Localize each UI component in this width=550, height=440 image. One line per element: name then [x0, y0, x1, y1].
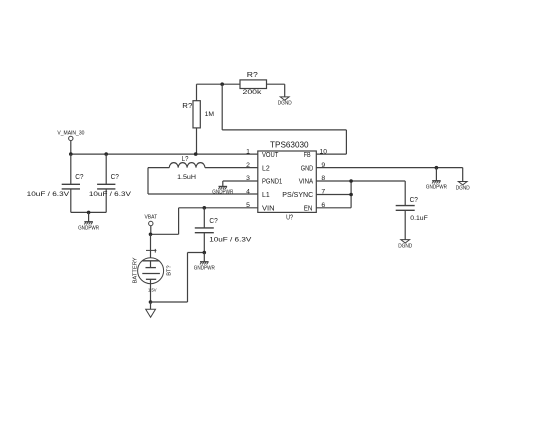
svg-text:C?: C?	[410, 195, 418, 204]
svg-text:GNDPWR: GNDPWR	[212, 190, 233, 196]
svg-text:VOUT: VOUT	[262, 150, 279, 159]
svg-text:0.1uF: 0.1uF	[410, 215, 428, 222]
svg-text:10: 10	[320, 148, 328, 155]
svg-text:VINA: VINA	[299, 177, 314, 186]
svg-text:1M: 1M	[205, 111, 215, 118]
svg-text:GNDPWR: GNDPWR	[78, 226, 99, 232]
svg-text:DGND: DGND	[456, 185, 470, 191]
svg-text:C?: C?	[75, 172, 83, 181]
svg-text:GND: GND	[301, 163, 314, 172]
svg-text:GNDPWR: GNDPWR	[426, 185, 447, 191]
svg-text:R?: R?	[182, 101, 192, 110]
svg-text:PGND1: PGND1	[262, 177, 282, 186]
svg-text:DGND: DGND	[398, 243, 412, 249]
svg-text:L?: L?	[182, 156, 189, 163]
svg-text:V_MAIN_30: V_MAIN_30	[57, 130, 84, 136]
svg-text:L1: L1	[262, 190, 270, 199]
svg-text:1.5uH: 1.5uH	[177, 174, 196, 181]
svg-text:L2: L2	[262, 163, 270, 172]
svg-text:TPS63030: TPS63030	[270, 141, 309, 150]
svg-text:FB: FB	[304, 150, 311, 159]
svg-text:10uF / 6.3V: 10uF / 6.3V	[89, 191, 132, 198]
svg-text:C?: C?	[111, 172, 119, 181]
svg-text:PS/SYNC: PS/SYNC	[282, 190, 313, 199]
svg-text:EN: EN	[304, 204, 313, 213]
svg-text:BT?: BT?	[166, 265, 172, 276]
svg-text:200k: 200k	[243, 89, 263, 96]
svg-text:DGND: DGND	[278, 101, 292, 107]
svg-text:10uF / 6.3V: 10uF / 6.3V	[209, 236, 252, 243]
svg-text:GNDPWR: GNDPWR	[194, 266, 215, 272]
svg-text:10uF / 6.3V: 10uF / 6.3V	[27, 191, 70, 198]
svg-text:R?: R?	[247, 70, 258, 79]
svg-text:U?: U?	[286, 212, 293, 221]
svg-text:VBAT: VBAT	[144, 215, 157, 221]
svg-text:4: 4	[246, 189, 250, 196]
svg-text:VIN: VIN	[262, 204, 275, 213]
svg-text:BATTERY: BATTERY	[132, 257, 138, 283]
svg-text:C?: C?	[209, 216, 217, 225]
svg-text:1.5V: 1.5V	[148, 288, 157, 293]
